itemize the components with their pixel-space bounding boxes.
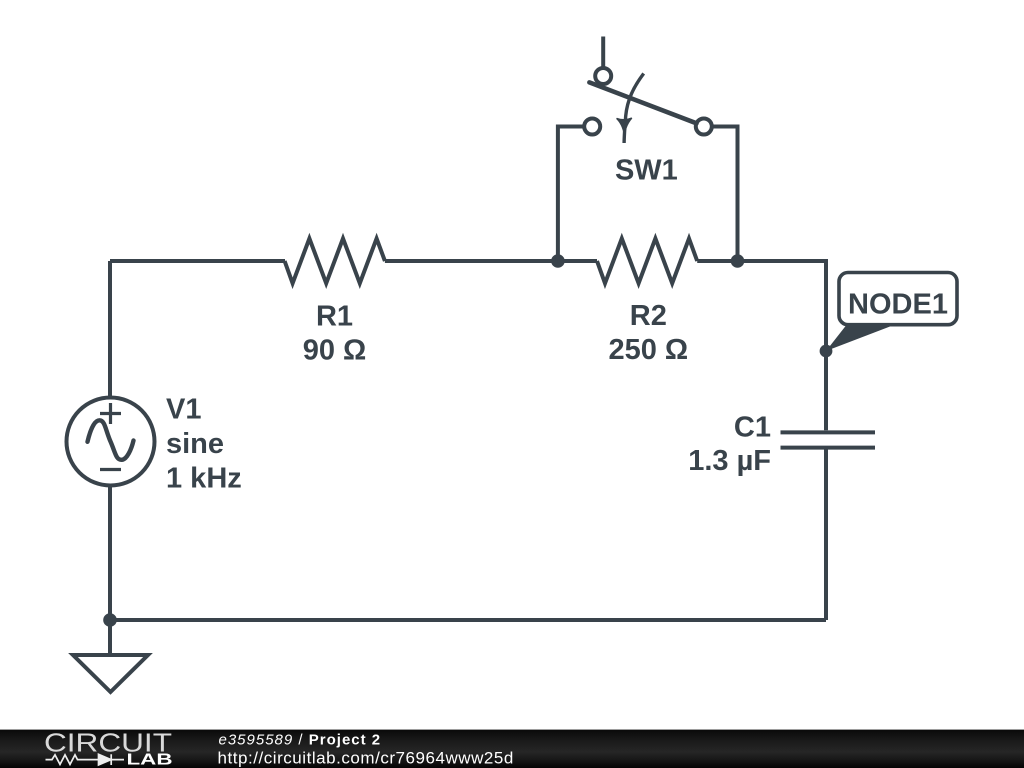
capacitor C1 top plate — [781, 430, 876, 434]
voltage source V1 circle — [67, 398, 155, 486]
svg-text:90 Ω: 90 Ω — [303, 335, 367, 367]
svg-text:1 kHz: 1 kHz — [166, 463, 242, 495]
svg-text:NODE1: NODE1 — [848, 289, 948, 321]
resistor R1 — [285, 239, 385, 284]
wire junction A up to switch left terminal — [558, 127, 584, 262]
node NODE1 callout tail — [826, 326, 890, 352]
junction ground node — [103, 613, 117, 627]
voltage source V1 minus sign — [100, 468, 121, 471]
wire V1 bottom — [108, 486, 112, 621]
svg-text:R1: R1 — [316, 301, 353, 333]
wire R1 to junction A — [385, 259, 558, 263]
svg-text:http://circuitlab.com/cr76964w: http://circuitlab.com/cr76964www25d — [218, 749, 514, 768]
switch SW1 left terminal circle — [584, 119, 600, 135]
switch SW1 top terminal circle — [595, 68, 611, 84]
svg-text:1.3 µF: 1.3 µF — [688, 445, 771, 477]
switch SW1 motion arc arrow — [624, 74, 644, 144]
resistor R2 — [597, 239, 697, 284]
switch SW1 top wire stub — [601, 37, 605, 69]
wire bottom rail — [110, 618, 826, 622]
wire switch right terminal down to junction B — [712, 127, 738, 262]
ground symbol — [73, 655, 148, 692]
junction node B — [731, 254, 745, 268]
switch SW1 arm — [589, 82, 696, 123]
svg-text:SW1: SW1 — [615, 155, 678, 187]
wire ground stub — [108, 620, 112, 655]
wire R2 to junction B — [697, 259, 737, 263]
svg-text:250 Ω: 250 Ω — [608, 334, 688, 366]
wire capacitor down to bottom-right corner — [824, 448, 828, 620]
svg-text:R2: R2 — [630, 300, 667, 332]
node NODE1 junction dot — [820, 345, 833, 358]
junction node A — [551, 254, 565, 268]
wire junction B to top-right corner and down to capacitor — [738, 261, 827, 430]
svg-text:sine: sine — [166, 428, 224, 460]
svg-text:e3595589 / Project 2: e3595589 / Project 2 — [219, 731, 382, 748]
voltage source V1 sine wave — [88, 420, 134, 460]
node NODE1 callout box — [839, 273, 957, 325]
wire top-left from V1 to R1 — [110, 259, 285, 263]
voltage source V1 plus sign — [100, 403, 121, 424]
footer logo resistor-diode squiggle — [46, 754, 125, 765]
capacitor C1 bottom plate — [781, 446, 876, 450]
wire junction A to R2 — [558, 259, 597, 263]
svg-text:V1: V1 — [166, 394, 201, 426]
svg-text:C1: C1 — [734, 411, 771, 443]
wire V1 top — [108, 261, 112, 398]
svg-text:LAB: LAB — [127, 752, 173, 768]
switch SW1 right terminal circle — [696, 119, 712, 135]
